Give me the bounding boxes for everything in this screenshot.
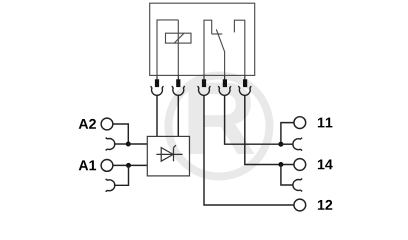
wire: pin2 socket to protection module [177,95,179,136]
label 14 [318,160,333,170]
wire: A1 to protection module [113,164,147,166]
node NA1 [126,163,131,168]
wire: coil lead pin2 vertical [177,20,179,76]
label A2 [79,119,96,129]
relay coil K1 [166,33,192,43]
bridge socket under 11 [293,138,302,151]
wire: node N11 up to terminal 11 [281,123,294,145]
pin 2 plug [176,75,180,87]
terminal 11 [294,117,306,129]
NC contact foot [212,33,223,35]
relay module outline K1 [150,3,255,75]
pin 2 socket [172,86,185,95]
terminal A1 [101,160,113,172]
terminal 12 [294,199,306,211]
pin 3 plug [202,75,206,87]
wire: node NA1 down to A1 bridge socket [114,165,129,185]
contact lever (common) [216,29,225,52]
wire: A2 to node NA2 [113,124,128,144]
wire: pin3 socket down to terminal 12 [204,95,294,205]
wire: NC fixed contact from pin3 [204,20,212,75]
wire: node N14 down to bridge socket [281,165,294,186]
pin 4 socket [218,86,231,95]
bridge socket under A2 [106,138,115,151]
pin 5 plug [243,75,247,87]
pin 1 plug [155,75,159,87]
label A1 [79,160,96,170]
bridge socket under 14 [293,179,302,192]
node NA2 [126,142,131,147]
input protection module [147,136,189,176]
wire: A2 socket stub [114,143,128,145]
pin 3 socket [198,86,211,95]
node N11 [278,142,283,147]
wire: NO fixed contact from pin5 [234,20,244,75]
node N14 [278,162,283,167]
pin 5 socket [238,86,251,95]
terminal 14 [294,159,306,171]
wire: node NA2 to protection module [128,143,147,145]
diode V1 [156,145,182,161]
wire: pin4 socket down to node N11 [225,95,281,144]
wire: node N11 to bridge socket [281,143,294,145]
pin 4 plug [223,75,227,87]
label 12 [318,200,332,210]
wire: coil loop pin1 to coil top [157,20,178,76]
terminal A2 [101,118,113,130]
wire: pin1 socket to protection module [156,95,158,136]
pin 1 socket [151,86,164,95]
wire: pin5 socket down to terminal 14 [245,95,294,165]
bridge socket under A1 [106,179,115,192]
wire: common lever to pin4 [224,52,226,75]
label 11 [318,118,333,128]
